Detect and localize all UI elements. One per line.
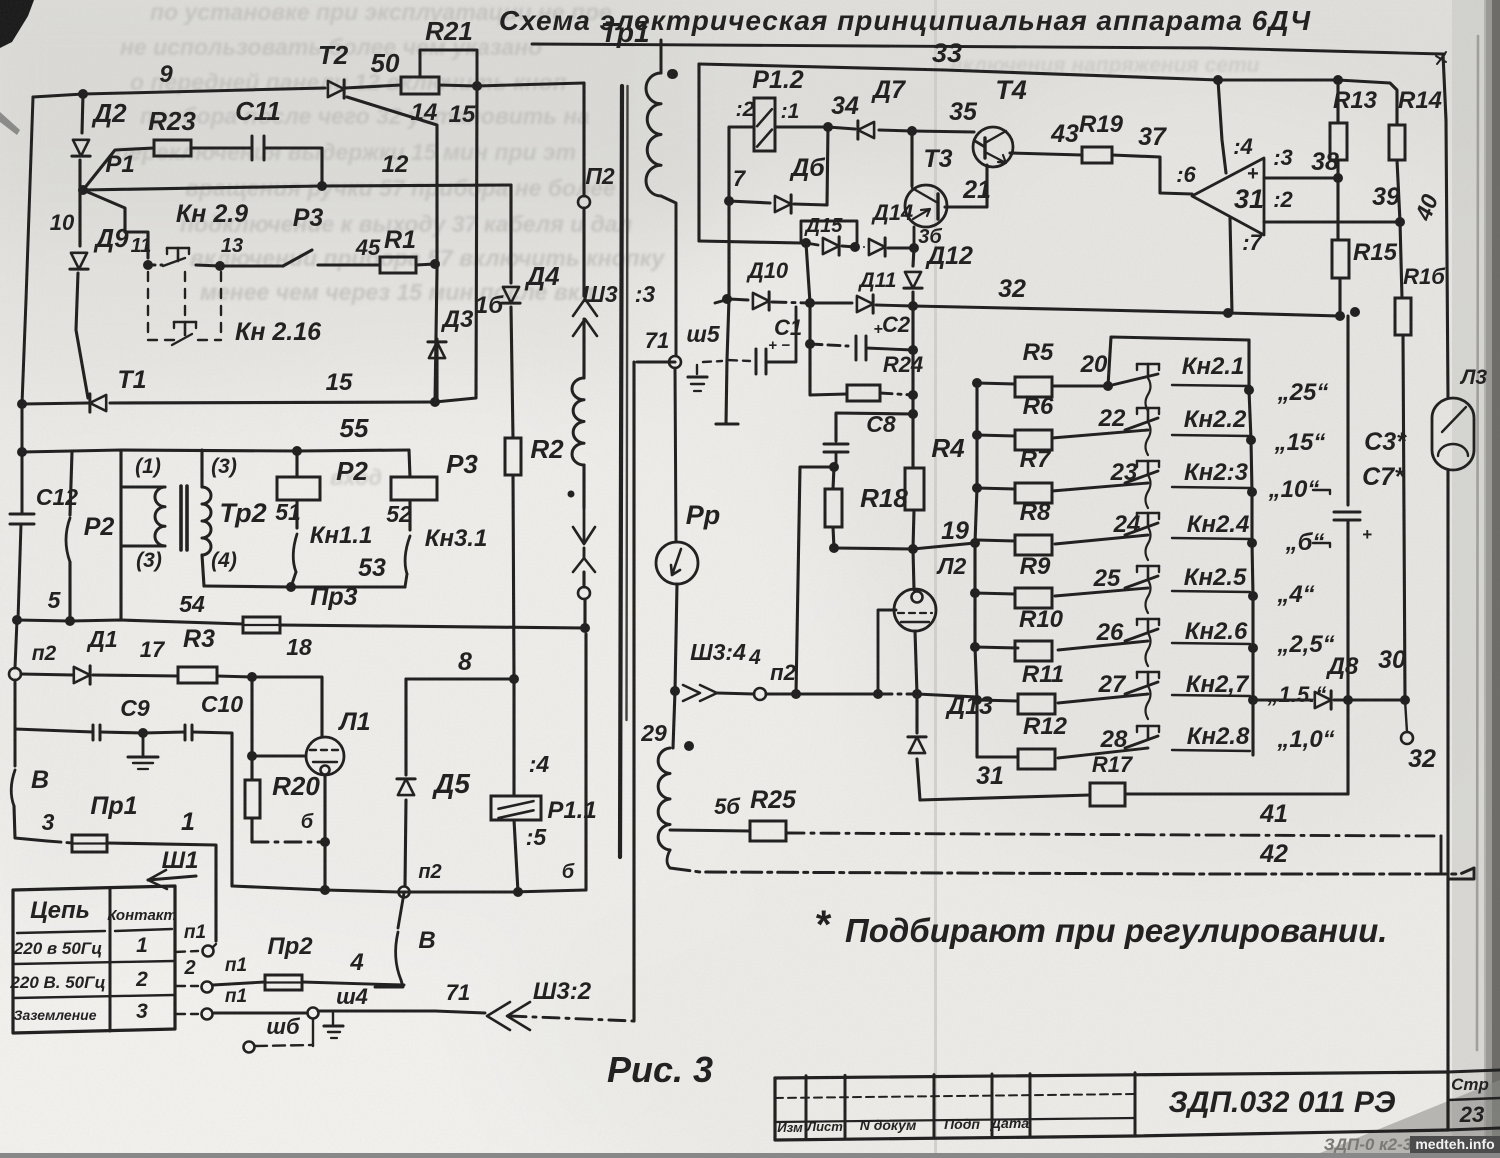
svg-text:medteh.info: medteh.info (1415, 1136, 1494, 1152)
svg-text:ЗДП-0 к2-3: ЗДП-0 к2-3 (1324, 1135, 1413, 1153)
